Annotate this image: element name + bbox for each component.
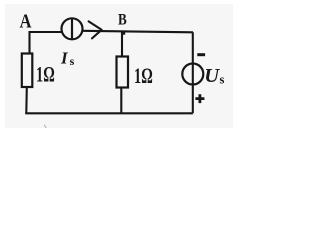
value label Is xyxy=(60,49,75,68)
current source Is (circle with perpendicular bar) xyxy=(62,18,83,39)
wire: middle resistor down to bottom wire xyxy=(120,88,122,114)
resistor R1 (left 1 ohm) xyxy=(22,54,33,88)
resistor R2 (middle 1 ohm) xyxy=(117,57,129,88)
wire: B down to middle resistor xyxy=(121,32,123,57)
wire: right branch (top corner down through voltage source to bottom corner) xyxy=(192,32,194,113)
wire: current source to node B to right corner (top wire) xyxy=(83,31,194,33)
current direction arrow xyxy=(89,21,102,38)
wire: A corner down-left branch top, and across to current source xyxy=(30,32,62,54)
scan paper background xyxy=(0,0,242,135)
polarity minus xyxy=(197,53,205,56)
wire: left resistor down to bottom-left corner xyxy=(25,87,28,113)
value label Us xyxy=(204,65,224,87)
svg-text:1Ω: 1Ω xyxy=(36,63,55,88)
svg-text:A: A xyxy=(20,10,33,32)
svg-text:s: s xyxy=(70,54,75,68)
junction dot B xyxy=(121,31,125,35)
voltage source Us xyxy=(182,64,203,85)
svg-text:B: B xyxy=(118,11,127,28)
bottom wire xyxy=(26,112,193,113)
svg-text:U: U xyxy=(204,65,220,87)
scan speck xyxy=(44,125,46,128)
svg-text:s: s xyxy=(220,73,225,87)
polarity plus xyxy=(195,94,204,103)
svg-text:1Ω: 1Ω xyxy=(134,64,153,89)
